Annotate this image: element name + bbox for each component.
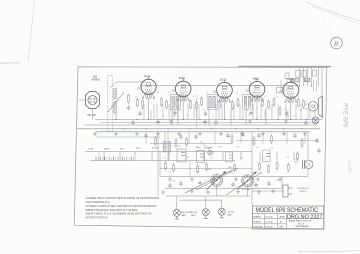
svg-text:50: 50: [248, 115, 250, 117]
svg-text:12.12.46: 12.12.46: [265, 222, 272, 224]
svg-text:JH: JH: [280, 222, 283, 224]
svg-text:2.2k: 2.2k: [178, 146, 181, 148]
svg-text:45-180: 45-180: [228, 212, 234, 214]
svg-text:B: B: [334, 41, 339, 48]
svg-text:2.2k: 2.2k: [172, 181, 175, 183]
svg-text:50: 50: [264, 96, 266, 98]
svg-text:2.2k: 2.2k: [262, 158, 265, 160]
svg-text:2.2k: 2.2k: [162, 147, 165, 149]
svg-text:50: 50: [174, 104, 176, 106]
svg-text:MODEL 6P6 SCHEMATIC: MODEL 6P6 SCHEMATIC: [256, 208, 319, 214]
svg-text:2.2k: 2.2k: [258, 173, 261, 175]
svg-text:50: 50: [293, 116, 295, 118]
svg-text:SUPPLY: SUPPLY: [300, 191, 308, 193]
svg-text:50: 50: [206, 92, 208, 94]
svg-text:DRG.NO 2327: DRG.NO 2327: [287, 214, 323, 220]
svg-text:6B8G: 6B8G: [253, 78, 259, 81]
svg-text:50: 50: [270, 109, 272, 111]
svg-text:50: 50: [236, 93, 238, 95]
svg-text:50: 50: [229, 96, 231, 98]
svg-text:2.2k: 2.2k: [240, 158, 243, 160]
svg-text:BATT: BATT: [191, 214, 197, 217]
svg-text:PYE 6P6: PYE 6P6: [342, 103, 348, 128]
svg-text:50: 50: [203, 110, 205, 112]
svg-text:6U7G: 6U7G: [144, 75, 151, 78]
svg-text:3H.16: 3H.16: [104, 149, 110, 151]
svg-text:50: 50: [168, 92, 170, 94]
svg-text:MK 606: MK 606: [88, 114, 97, 117]
svg-text:2.2k: 2.2k: [204, 180, 207, 182]
svg-text:2.2k: 2.2k: [186, 157, 189, 159]
svg-text:2.2k: 2.2k: [276, 180, 279, 182]
svg-text:2.2k: 2.2k: [286, 172, 289, 174]
svg-text:16.12.46: 16.12.46: [265, 227, 272, 229]
svg-text:2.2k: 2.2k: [256, 147, 259, 149]
svg-text:BATT: BATT: [182, 214, 188, 217]
svg-text:2.2k: 2.2k: [163, 158, 166, 160]
svg-text:50: 50: [186, 115, 188, 117]
svg-text:2.2k: 2.2k: [270, 147, 273, 149]
svg-text:50: 50: [218, 109, 220, 111]
svg-text:2.2k: 2.2k: [196, 172, 199, 174]
svg-text:50: 50: [284, 109, 286, 111]
svg-text:PORT AC-DC: PORT AC-DC: [298, 187, 310, 190]
svg-text:NEW ZEALAND: NEW ZEALAND: [296, 225, 310, 228]
svg-text:2.2k: 2.2k: [230, 173, 233, 175]
svg-text:AERIAL: AERIAL: [92, 79, 102, 82]
svg-text:AKRAD RADIO CORP LTD: AKRAD RADIO CORP LTD: [289, 220, 312, 223]
svg-text:50: 50: [135, 97, 137, 99]
svg-text:2.2k: 2.2k: [198, 148, 201, 150]
svg-text:0.5 F: 0.5 F: [136, 148, 141, 150]
svg-text:PN. OX: PN. OX: [298, 223, 305, 225]
svg-text:TRACED: TRACED: [253, 221, 261, 224]
svg-text:50: 50: [276, 97, 278, 99]
svg-text:50: 50: [192, 96, 194, 98]
svg-text:50k: 50k: [295, 162, 298, 164]
svg-text:50: 50: [252, 92, 254, 94]
svg-text:BATTERY POSITION: BATTERY POSITION: [86, 216, 108, 220]
svg-text:CHECKED: CHECKED: [253, 227, 263, 229]
svg-text:2.2k: 2.2k: [236, 147, 239, 149]
svg-text:6K8G: 6K8G: [179, 77, 185, 80]
svg-text:2.2k: 2.2k: [286, 157, 289, 159]
svg-text:2.2k: 2.2k: [210, 158, 213, 160]
svg-text:50: 50: [297, 96, 299, 98]
svg-text:50: 50: [157, 92, 159, 94]
svg-text:6V6: 6V6: [292, 79, 297, 82]
svg-text:50: 50: [162, 116, 164, 118]
svg-text:x: x: [323, 19, 325, 23]
svg-text:BATT: BATT: [228, 213, 234, 216]
svg-text:AGM: AGM: [280, 216, 285, 219]
svg-text:50: 50: [212, 116, 214, 118]
svg-text:50: 50: [300, 110, 302, 112]
svg-text:6U7G: 6U7G: [220, 78, 227, 81]
svg-text:2.2k: 2.2k: [250, 180, 253, 182]
svg-text:~ x: ~ x: [325, 27, 330, 31]
svg-text:50: 50: [246, 110, 248, 112]
svg-text:21.11.46: 21.11.46: [265, 217, 272, 219]
svg-text:2.2k: 2.2k: [218, 147, 221, 149]
svg-text:2.2k: 2.2k: [168, 172, 171, 174]
svg-text:S.1/B: S.1/B: [88, 149, 94, 151]
svg-text:4.5 B BAT: 4.5 B BAT: [242, 188, 252, 191]
svg-text:50: 50: [141, 109, 143, 111]
svg-text:45-180: 45-180: [191, 212, 197, 214]
svg-text:DRAWN: DRAWN: [253, 216, 261, 219]
